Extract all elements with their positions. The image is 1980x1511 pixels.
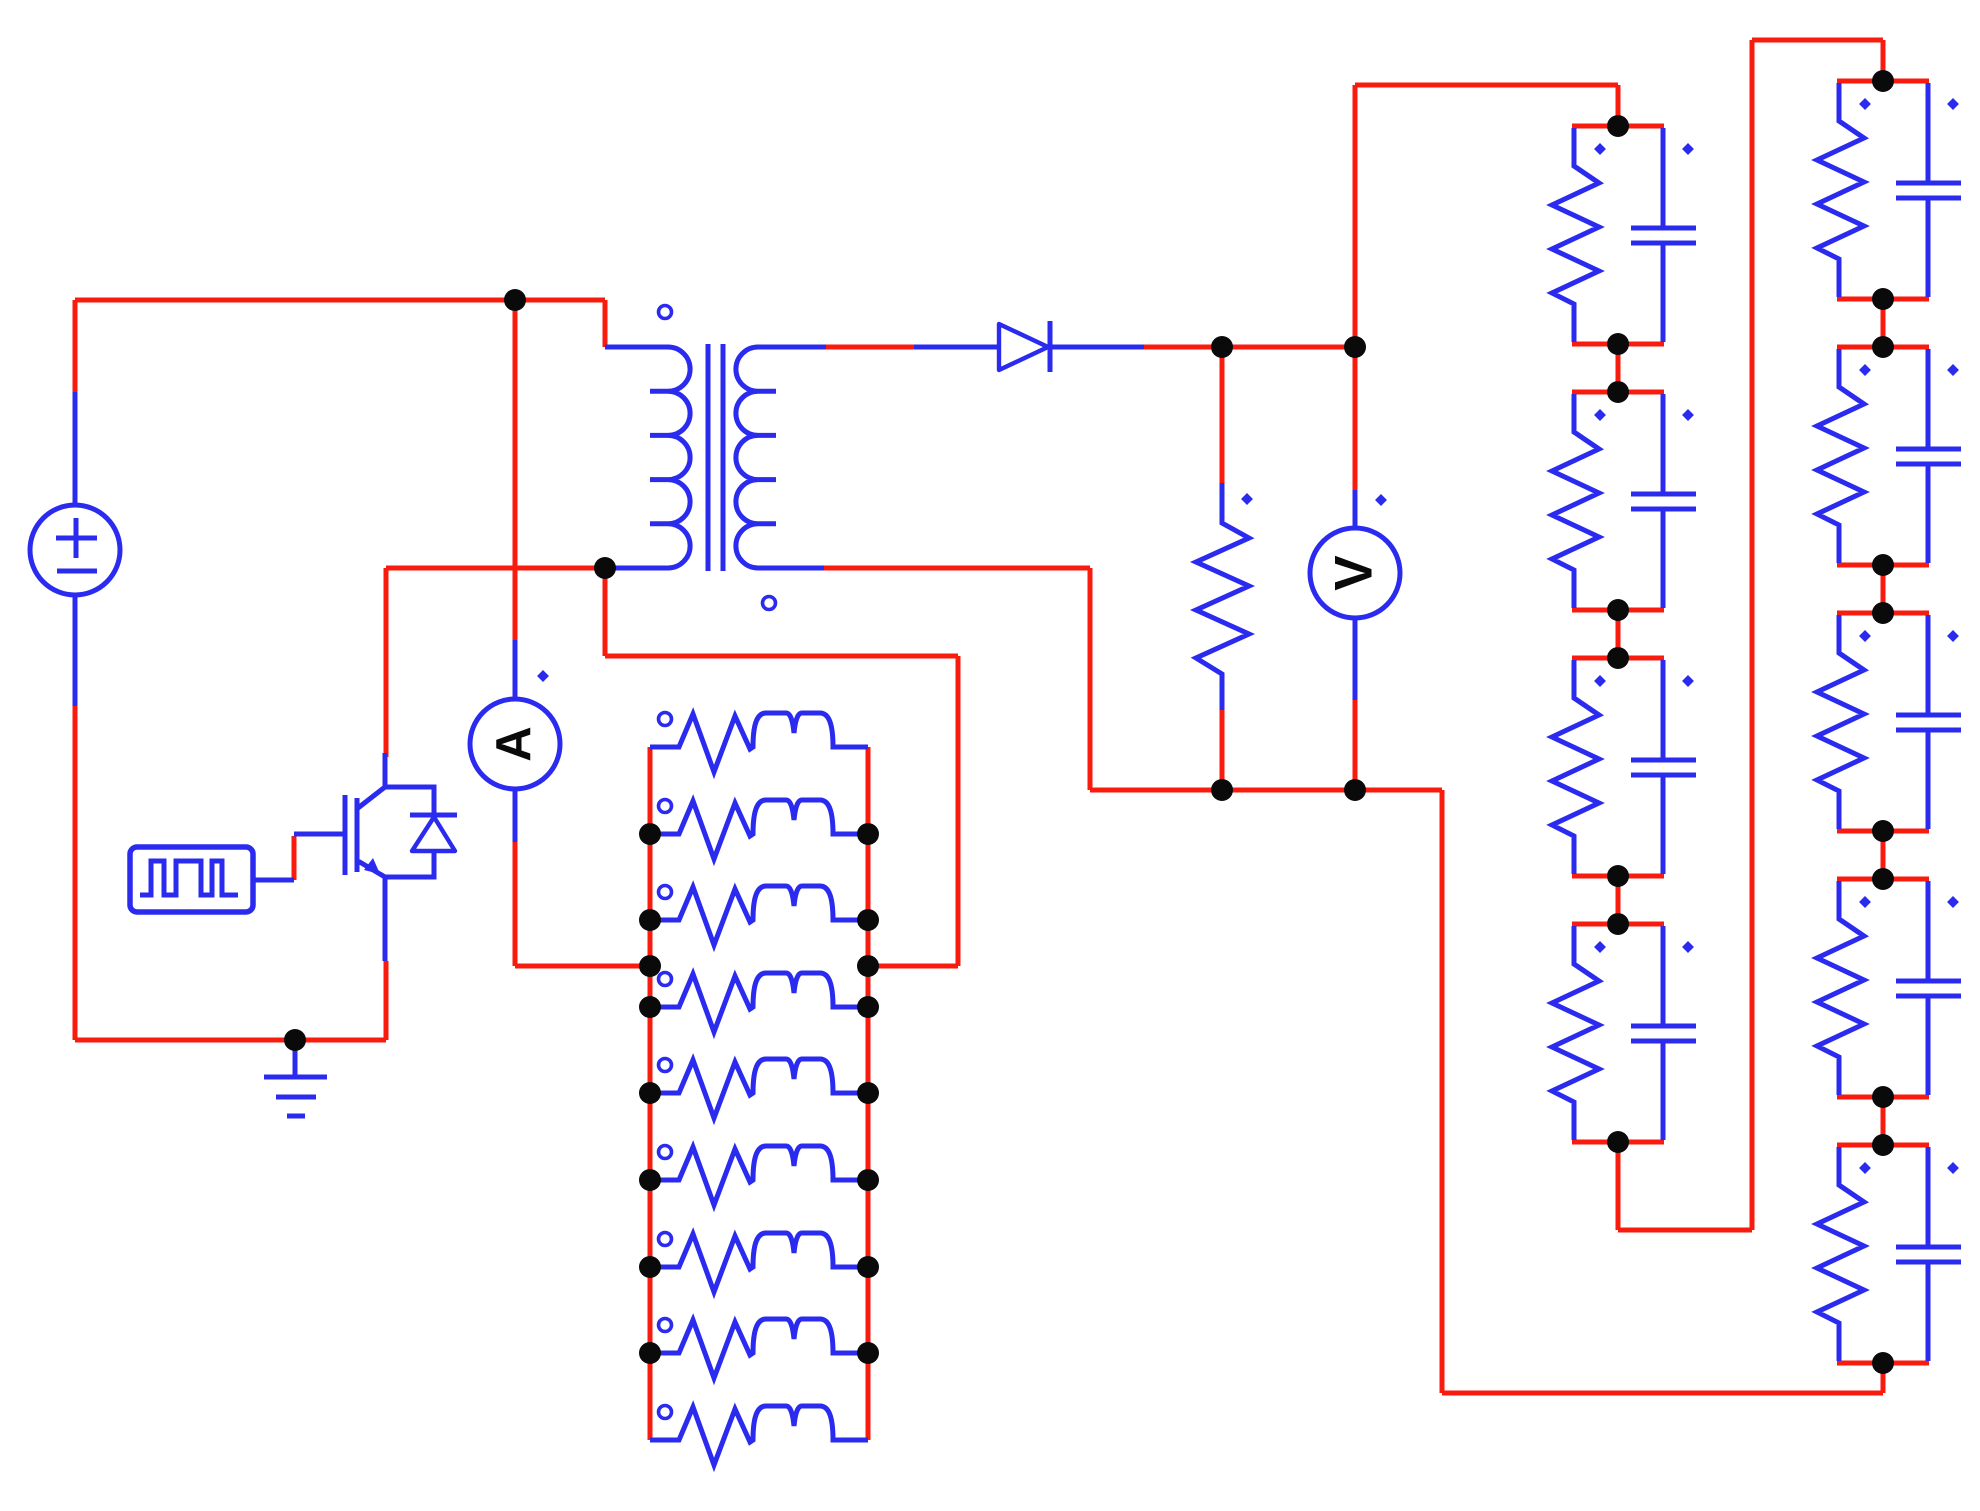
svg-text:A: A [487, 726, 541, 761]
svg-text:V: V [1325, 555, 1384, 590]
